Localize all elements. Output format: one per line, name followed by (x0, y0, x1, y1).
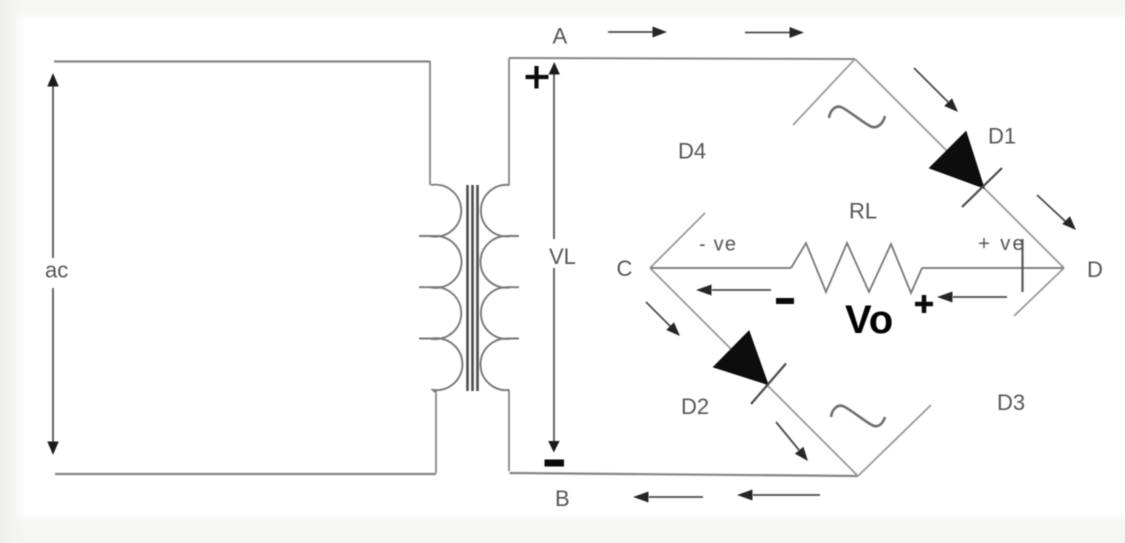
svg-text:RL: RL (849, 199, 877, 224)
bridge edge top-right (855, 59, 1064, 268)
wire primary top stub (429, 61, 431, 185)
wire bridge horizontal left (650, 267, 791, 269)
label VL (546, 239, 580, 269)
current arrow on D1 edge lower (1037, 195, 1076, 230)
VL arrow (548, 62, 560, 453)
current arrow top 1 (608, 27, 667, 38)
svg-text:VL: VL (549, 244, 576, 269)
svg-text:C: C (617, 256, 633, 281)
diode D2 cathode bar (751, 364, 786, 405)
wire bottom-left loop (55, 473, 436, 475)
current arrow top 2 (745, 27, 804, 38)
cathode bar near D (1021, 239, 1023, 292)
plus polarity mark (915, 295, 933, 313)
label ac (43, 258, 75, 289)
diode D1 (930, 132, 985, 189)
wire bridge horizontal right (922, 267, 1064, 269)
svg-text:Vo: Vo (845, 298, 893, 342)
wire secondary bottom (510, 473, 859, 476)
current arrow on D2 edge lower (776, 422, 808, 461)
bridge edge bottom-right segment 2 (1014, 268, 1064, 316)
bridge edge top-left segment 1 (793, 59, 855, 125)
wire top-left loop (54, 60, 430, 62)
svg-text:+ ve: + ve (978, 232, 1026, 255)
transformer core (468, 185, 478, 391)
current arrow on D2 edge upper (646, 302, 680, 336)
svg-text:D: D (1087, 257, 1103, 282)
svg-text:D2: D2 (681, 394, 709, 419)
svg-text:A: A (553, 24, 568, 49)
ac tilde bottom (831, 406, 885, 426)
current arrow bottom 1 (633, 492, 703, 503)
svg-text:D3: D3 (997, 390, 1025, 415)
wire secondary top stub (508, 58, 510, 185)
wire primary bottom stub (435, 390, 437, 473)
wire secondary top (509, 58, 855, 59)
svg-text:ac: ac (45, 258, 68, 283)
diode D1 cathode bar (962, 168, 1002, 207)
current arrow on D1 edge upper (914, 68, 958, 112)
wire secondary bottom stub (508, 390, 510, 471)
output arrow right (937, 292, 1007, 303)
minus sign secondary bottom (545, 460, 565, 467)
ac tilde top (829, 107, 885, 127)
diode D2 (714, 331, 769, 385)
bridge edge top-left segment 2 (650, 213, 705, 268)
output arrow left (696, 285, 771, 296)
transformer primary winding (419, 185, 462, 392)
svg-text:D1: D1 (988, 124, 1016, 149)
current arrow bottom 2 (737, 490, 820, 501)
ac source arrow (47, 73, 58, 455)
transformer secondary winding (480, 185, 519, 390)
resistor RL (791, 243, 922, 293)
svg-text:B: B (555, 486, 570, 511)
minus polarity mark (776, 298, 794, 304)
bridge edge bottom-left (650, 268, 858, 476)
bridge edge bottom-right segment 1 (858, 405, 931, 476)
plus sign secondary top (526, 66, 549, 89)
svg-text:D4: D4 (678, 139, 706, 164)
svg-text:- ve: - ve (699, 234, 737, 256)
